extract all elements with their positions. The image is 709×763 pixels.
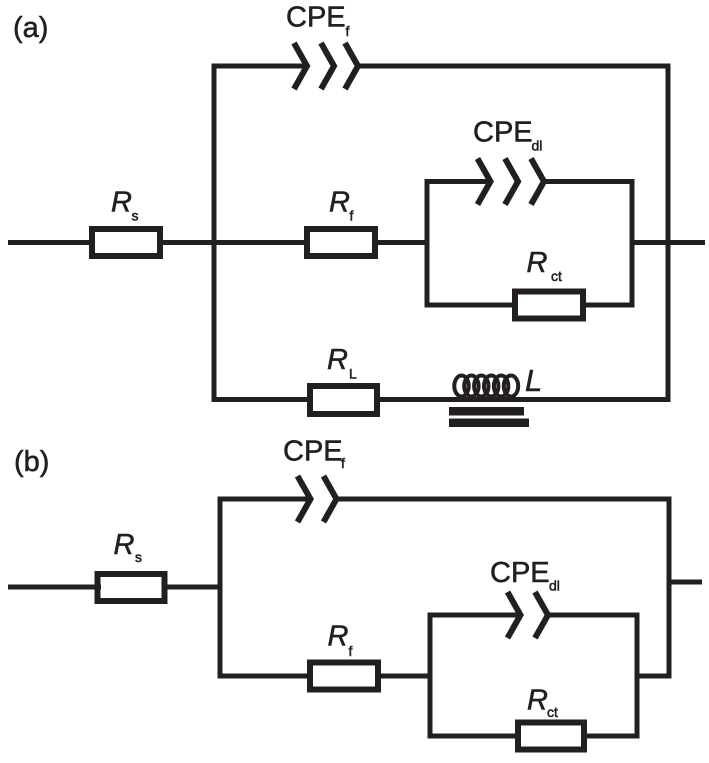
- label CPEf (b): [283, 436, 345, 472]
- label CPEdl (a): [473, 117, 542, 154]
- svg-text:L: L: [349, 366, 357, 382]
- wire : top branch right segment (a): [358, 64, 671, 69]
- label Rct (b): [527, 685, 558, 721]
- resistor Rf (a): [307, 229, 375, 256]
- svg-text:f: f: [349, 643, 353, 659]
- svg-text:ct: ct: [551, 268, 562, 284]
- svg-text:s: s: [135, 549, 142, 565]
- resistor Rs (b): [98, 574, 165, 601]
- svg-text:R: R: [327, 344, 348, 376]
- CPE_f (a) chevron 3: [345, 43, 358, 89]
- svg-text:CPE: CPE: [473, 117, 533, 149]
- svg-text:CPE: CPE: [283, 436, 343, 468]
- CPE_dl (b) chevron 2: [535, 592, 548, 638]
- svg-text:ct: ct: [547, 704, 558, 720]
- wire : inner box to outer vertical connector (b): [637, 674, 672, 679]
- label Rct (a): [527, 247, 563, 284]
- wire : left input stub (a): [8, 240, 95, 245]
- svg-text:R: R: [114, 529, 135, 561]
- wire : bottom branch left segment (a): [212, 397, 313, 402]
- svg-text:R: R: [527, 685, 548, 717]
- resistor Rs (a): [92, 229, 160, 256]
- label Rs (a): [111, 187, 139, 224]
- wire : output segment (a): [632, 240, 705, 245]
- wire : inner box top left segment (a): [425, 179, 489, 184]
- inductor L (a) core bar 2: [449, 419, 529, 428]
- label Rf (a): [329, 187, 354, 224]
- wire : Rf to inner box (a): [378, 240, 430, 245]
- svg-text:R: R: [329, 187, 350, 219]
- wire : top branch left segment (a): [212, 64, 306, 69]
- resistor Rf (b): [310, 663, 378, 690]
- wire : inner box bottom left segment (a): [425, 303, 519, 308]
- resistor Rct (b): [518, 723, 584, 750]
- svg-text:R: R: [111, 187, 132, 219]
- CPE_dl (a) chevron 1: [478, 159, 491, 205]
- wire : inner box left vertical (b): [428, 613, 433, 739]
- svg-text:CPE: CPE: [286, 2, 346, 34]
- CPE_dl (b) chevron 1: [508, 592, 521, 638]
- resistor RL (a): [310, 386, 377, 414]
- wire : bottom branch left segment (b): [218, 674, 314, 679]
- wire : Rf to inner box (b): [381, 674, 433, 679]
- svg-text:dl: dl: [532, 138, 543, 154]
- label CPEdl (b): [490, 557, 560, 594]
- svg-text:(a): (a): [13, 12, 48, 44]
- svg-text:(b): (b): [14, 446, 49, 478]
- wire : inner box right vertical (a): [630, 179, 635, 308]
- wire : left branch vertical (b): [218, 497, 223, 679]
- svg-text:CPE: CPE: [490, 557, 550, 589]
- wire : bottom branch right segment (a): [377, 397, 671, 402]
- wire : inner box top left segment (b): [428, 613, 519, 618]
- label RL (a): [327, 344, 357, 382]
- CPE_f (b) chevron 1: [298, 476, 311, 522]
- wire : top branch right segment (b): [337, 497, 672, 502]
- wire : left branch vertical (a): [212, 64, 217, 403]
- label Rf (b): [328, 621, 353, 660]
- wire : right outer vertical (b): [667, 497, 672, 679]
- label Rs (b): [114, 529, 143, 565]
- wire : inner box bottom right segment (b): [581, 734, 640, 739]
- CPE_f (a) chevron 1: [294, 43, 307, 89]
- wire : Rs to Rf through node (a): [160, 240, 310, 245]
- wire : Rs to branch node (b): [165, 585, 223, 590]
- wire : inner box top right segment (b): [548, 613, 640, 618]
- inductor L (a) coil loops: [454, 376, 518, 397]
- wire : right outer vertical (a): [666, 64, 671, 403]
- label CPEf (a): [286, 2, 350, 40]
- wire : inner box right vertical (b): [635, 613, 640, 739]
- svg-text:dl: dl: [549, 578, 560, 594]
- resistor Rct (a): [515, 292, 583, 319]
- wire : inner box top right segment (a): [544, 179, 635, 184]
- CPE_dl (a) chevron 3: [531, 159, 544, 205]
- CPE_f (a) chevron 2: [321, 43, 334, 89]
- svg-text:R: R: [527, 247, 548, 279]
- svg-text:f: f: [341, 455, 345, 471]
- svg-text:f: f: [346, 23, 350, 39]
- svg-text:f: f: [350, 208, 354, 224]
- wire : inner box left vertical (a): [425, 179, 430, 308]
- wire : inner box bottom right segment (a): [580, 303, 635, 308]
- wire : top branch left segment (b): [218, 497, 309, 502]
- CPE_f (b) chevron 2: [324, 476, 337, 522]
- svg-text:s: s: [132, 208, 139, 224]
- wire : output stub (b): [669, 580, 702, 585]
- CPE_dl (a) chevron 2: [505, 159, 518, 205]
- wire : inner box bottom left segment (b): [428, 734, 522, 739]
- svg-text:L: L: [525, 363, 542, 398]
- wire : left input stub (b): [8, 585, 101, 590]
- svg-text:R: R: [328, 621, 349, 653]
- inductor L (a) core bar 1: [449, 407, 524, 416]
- label L (a): [525, 363, 542, 398]
